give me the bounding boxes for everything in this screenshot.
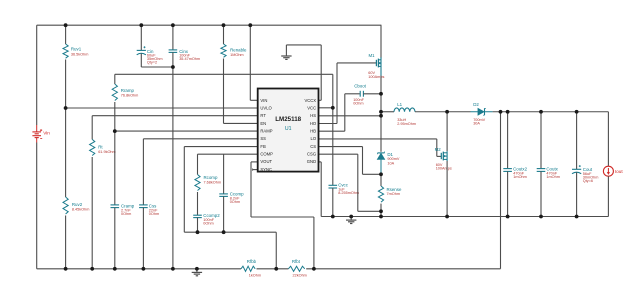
svg-text:10A: 10A [387,162,394,166]
capacitor Ccomp [219,191,244,204]
resistor Rcomp [195,175,221,191]
svg-text:UVLO: UVLO [260,105,272,110]
capacitor Ccomp2 [193,213,220,226]
wire SS net [143,139,257,205]
resistor Renable [221,44,247,57]
svg-text:Cboot: Cboot [354,84,366,89]
wire switch node column [380,76,382,152]
svg-text:100Amps: 100Amps [368,75,384,79]
wire Cin column top [140,25,142,50]
svg-text:30A: 30A [473,122,480,126]
pin labels U1 left [260,98,273,172]
svg-text:Ruv2: Ruv2 [72,202,83,207]
wire GND pin net [319,162,322,217]
wire Coutx column top [540,112,542,169]
wire Coutx column bottom [540,171,542,216]
svg-text:LO: LO [311,136,317,141]
wire Cvcc bottom [332,188,334,217]
wire Cout column bottom [576,172,578,216]
svg-text:0Ohm: 0Ohm [353,102,363,106]
wire CS net [319,147,382,175]
wire Vout sense column [500,112,502,269]
svg-text:1MOhm: 1MOhm [230,53,244,57]
svg-text:7mOhm: 7mOhm [387,192,401,196]
capacitor Cvcc [329,182,360,195]
svg-text:Ccomp: Ccomp [230,191,244,196]
wire HO net [319,63,377,124]
svg-text:M2: M2 [435,147,442,152]
wire Renable column [223,25,225,44]
wire top input rail [37,24,382,26]
wire Cboot to switch node [363,93,381,95]
svg-text:Rcomp: Rcomp [204,175,218,180]
wire Rramp to Cramp column [114,102,116,205]
svg-text:EN: EN [260,121,266,126]
wire UVLO net [66,107,258,109]
svg-text:8.45kOhm: 8.45kOhm [72,208,90,212]
resistor Rramp [112,84,138,101]
wire Ccomp branch [223,154,225,193]
svg-text:L1: L1 [397,102,402,107]
current source Iout [603,166,623,176]
wire L1 to D2 [415,111,471,113]
svg-text:FB: FB [260,144,266,149]
svg-text:8.255mOhm: 8.255mOhm [338,191,359,195]
svg-text:VCCX: VCCX [304,98,316,103]
capacitor Coutx [537,166,560,179]
svg-text:Renable: Renable [230,47,247,52]
svg-text:HS: HS [310,113,316,118]
svg-text:2.95mOhm: 2.95mOhm [397,122,416,126]
wire Coutx2 column bottom [507,171,509,216]
wire Iout column bottom [607,176,609,216]
svg-text:D2: D2 [473,102,479,107]
svg-text:Vin: Vin [43,130,50,135]
svg-text:36.5kOhm: 36.5kOhm [71,53,89,57]
wire SYNC stub [253,169,258,171]
svg-text:CSG: CSG [307,152,316,157]
op-amp U1 LM25118 body [258,89,319,172]
wire M2 source to ground rail [446,161,448,217]
wire Cin bottom to Cinx node [141,54,173,68]
wire Rcomp to Ccomp2 [197,192,199,215]
svg-text:900mV: 900mV [387,157,399,161]
resistor Ruv1 [63,44,88,58]
wire Coutx2 column top [507,112,509,169]
wire FB net [184,147,276,269]
wire Iout column top [607,112,609,166]
svg-text:Rsense: Rsense [387,187,402,192]
svg-text:Ruv1: Ruv1 [71,47,82,52]
svg-text:D1: D1 [387,152,393,157]
svg-text:Css: Css [149,203,157,208]
pin labels U1 right [304,98,316,164]
wire VOUT pin net [251,162,314,269]
wire output top rail [493,111,609,113]
wire RAMP net [115,130,258,132]
svg-text:HO: HO [310,121,317,126]
wire input ground column [172,52,174,268]
wire VCC feed to Rramp [115,74,333,84]
svg-text:Qty=2: Qty=2 [147,60,157,64]
svg-text:Rfbt: Rfbt [292,259,301,264]
svg-text:Rt: Rt [98,145,103,150]
wire Ruv column bottom [65,216,67,269]
voltage source Vin [32,125,50,143]
wire left Vin rail upper [36,25,38,125]
transistor M2 [435,112,452,171]
svg-text:COMP: COMP [260,152,273,157]
diode D2 [471,102,493,126]
svg-text:0Ohm: 0Ohm [149,212,159,216]
wire bottom ground rail left [37,268,241,270]
svg-text:100Amps: 100Amps [436,167,452,171]
svg-text:HB: HB [310,129,316,134]
wire COMP net [198,154,258,174]
svg-text:GND: GND [307,159,316,164]
svg-text:RAMP: RAMP [260,129,272,134]
capacitor Css [139,203,159,216]
svg-text:1mOhm: 1mOhm [513,175,527,179]
resistor Rfbt [288,259,306,278]
resistor Rfbb [241,259,261,278]
wire Ccomp bottom [223,196,225,232]
capacitor Cout [572,165,598,183]
wire bottom rail right [306,268,500,270]
wire Css bottom [142,208,144,269]
capacitor Coutx2 [503,166,527,179]
svg-text:SYNC: SYNC [260,167,272,172]
svg-text:35.47mOhm: 35.47mOhm [179,57,200,61]
svg-text:CS: CS [310,144,316,149]
capacitor Cboot [353,84,366,106]
svg-text:0Ohm: 0Ohm [121,212,131,216]
svg-text:0Ohm: 0Ohm [230,200,240,204]
svg-text:Rramp: Rramp [121,88,135,93]
svg-text:0Ohm: 0Ohm [203,221,213,225]
wire Cramp bottom [114,208,116,269]
svg-text:1kOhm: 1kOhm [249,274,261,278]
wire VCCX to ground [286,45,321,100]
wire VCC pin stub [319,107,333,109]
svg-text:SS: SS [260,136,266,141]
svg-text:M1: M1 [369,53,376,58]
transistor M1 [368,25,384,79]
resistor Rt [90,139,116,155]
wire HB net [319,94,360,131]
wire VIN pin net [250,25,257,100]
resistor Rsense [378,186,402,202]
ground symbol VCCX [281,45,291,60]
wire RT net [92,116,258,140]
wire Cout column top [576,112,578,170]
wire VCC column [332,74,334,185]
svg-text:1mOhm: 1mOhm [546,175,560,179]
svg-text:22kOhm: 22kOhm [293,274,307,278]
capacitor Cinx [169,49,201,61]
svg-text:U1: U1 [285,126,292,132]
wire Ruv column middle [65,60,67,198]
wire Rsense to rails [380,174,382,216]
svg-text:LM25118: LM25118 [275,116,301,123]
wire bottom rail mid [257,268,289,270]
wire Cinx column top [172,25,174,49]
inductor L1 [381,102,416,126]
ground symbol power [346,217,356,224]
diode D1 [377,152,400,175]
resistor Ruv2 [63,197,89,214]
svg-text:VCC: VCC [307,105,316,110]
wire Ruv1/Ruv2 column top [65,25,67,44]
wire power ground rail [321,216,608,218]
wire HS net [319,115,382,117]
wire left Vin rail lower [36,143,38,269]
svg-text:Qty=6: Qty=6 [583,179,593,183]
ground symbol bottom-left [192,269,202,276]
svg-text:Cramp: Cramp [121,203,135,208]
capacitor Cramp [111,203,135,216]
svg-text:VIN: VIN [260,98,267,103]
svg-text:76.8kOhm: 76.8kOhm [121,94,139,98]
wire CSG net [319,154,382,211]
svg-text:61.9kOhm: 61.9kOhm [98,150,116,154]
wire Ccomp2 bottom [197,218,199,233]
svg-text:7.68kOhm: 7.68kOhm [204,181,222,185]
capacitor Cin [137,46,163,64]
wire Rt column bottom [91,157,93,269]
svg-text:Iout: Iout [615,169,624,174]
svg-text:Rfbb: Rfbb [247,259,257,264]
wire EN net [224,59,258,124]
wire LO net [319,139,442,157]
svg-text:RT: RT [260,113,266,118]
svg-text:VOUT: VOUT [260,159,272,164]
